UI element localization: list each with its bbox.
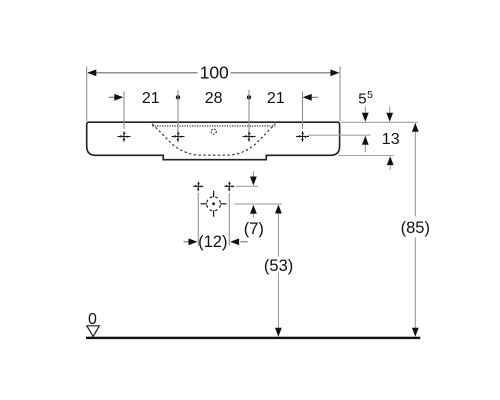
basin outline [87,122,340,160]
svg-text:(7): (7) [244,220,264,238]
fixing screw cross left [193,182,203,192]
floor line [86,337,420,339]
dimension line 100 [87,69,339,76]
extension line basin top right [341,121,418,123]
svg-text:100: 100 [200,63,229,83]
overflow dashed circle [211,129,216,134]
bowl hidden dashed curve [152,124,275,155]
extension line right of dim 100 [339,67,341,122]
svg-text:28: 28 [205,90,223,107]
bowl rim dotted line [152,125,276,127]
datum triangle [87,326,100,337]
extension line hole 2 [177,90,179,131]
svg-text:(53): (53) [264,257,293,275]
dim dot hole 2 [176,95,180,99]
svg-text:21: 21 [267,90,285,107]
tap hole cross 1 [118,131,131,141]
extension line left of dim 100 [86,67,88,122]
tap hole cross 3 [243,131,256,141]
extension line basin bottom right [339,155,394,157]
fixing screw cross right [224,182,234,192]
extension line screw level [236,185,258,187]
dim 13 up arrow [387,156,394,170]
dim row 21/28/21: left arrow [109,94,124,101]
dim 53 line [275,205,282,337]
svg-text:5: 5 [367,89,373,101]
dim 13 down arrow [386,107,393,122]
svg-text:21: 21 [142,90,160,107]
dim 7 up arrow [250,205,257,218]
dim 5.5 up arrow [362,136,369,153]
extension line hole 1 [123,92,125,130]
extension line screw right [228,193,230,246]
svg-text:5: 5 [358,91,366,108]
dim 7 down arrow [250,171,257,185]
drain crosshair [201,191,227,217]
dim row right arrow [303,94,318,101]
svg-text:(85): (85) [401,219,430,237]
extension line tap hole level [308,134,371,136]
dim 85 line [412,123,419,337]
extension line screw left [197,193,199,246]
extension line hole 4 [302,92,304,130]
tap hole cross 4 [296,131,309,141]
dim dot hole 3 [247,95,251,99]
drain center dot [212,202,215,205]
dim 12 right arrow [230,238,248,245]
svg-text:13: 13 [382,131,400,148]
svg-text:(12): (12) [198,233,227,251]
dim 12 left arrow [184,238,198,245]
extension line hole 3 [248,90,250,131]
tap hole cross 2 [172,131,185,141]
extension line drain level [234,203,282,205]
dim 5.5 down arrow [362,107,369,122]
